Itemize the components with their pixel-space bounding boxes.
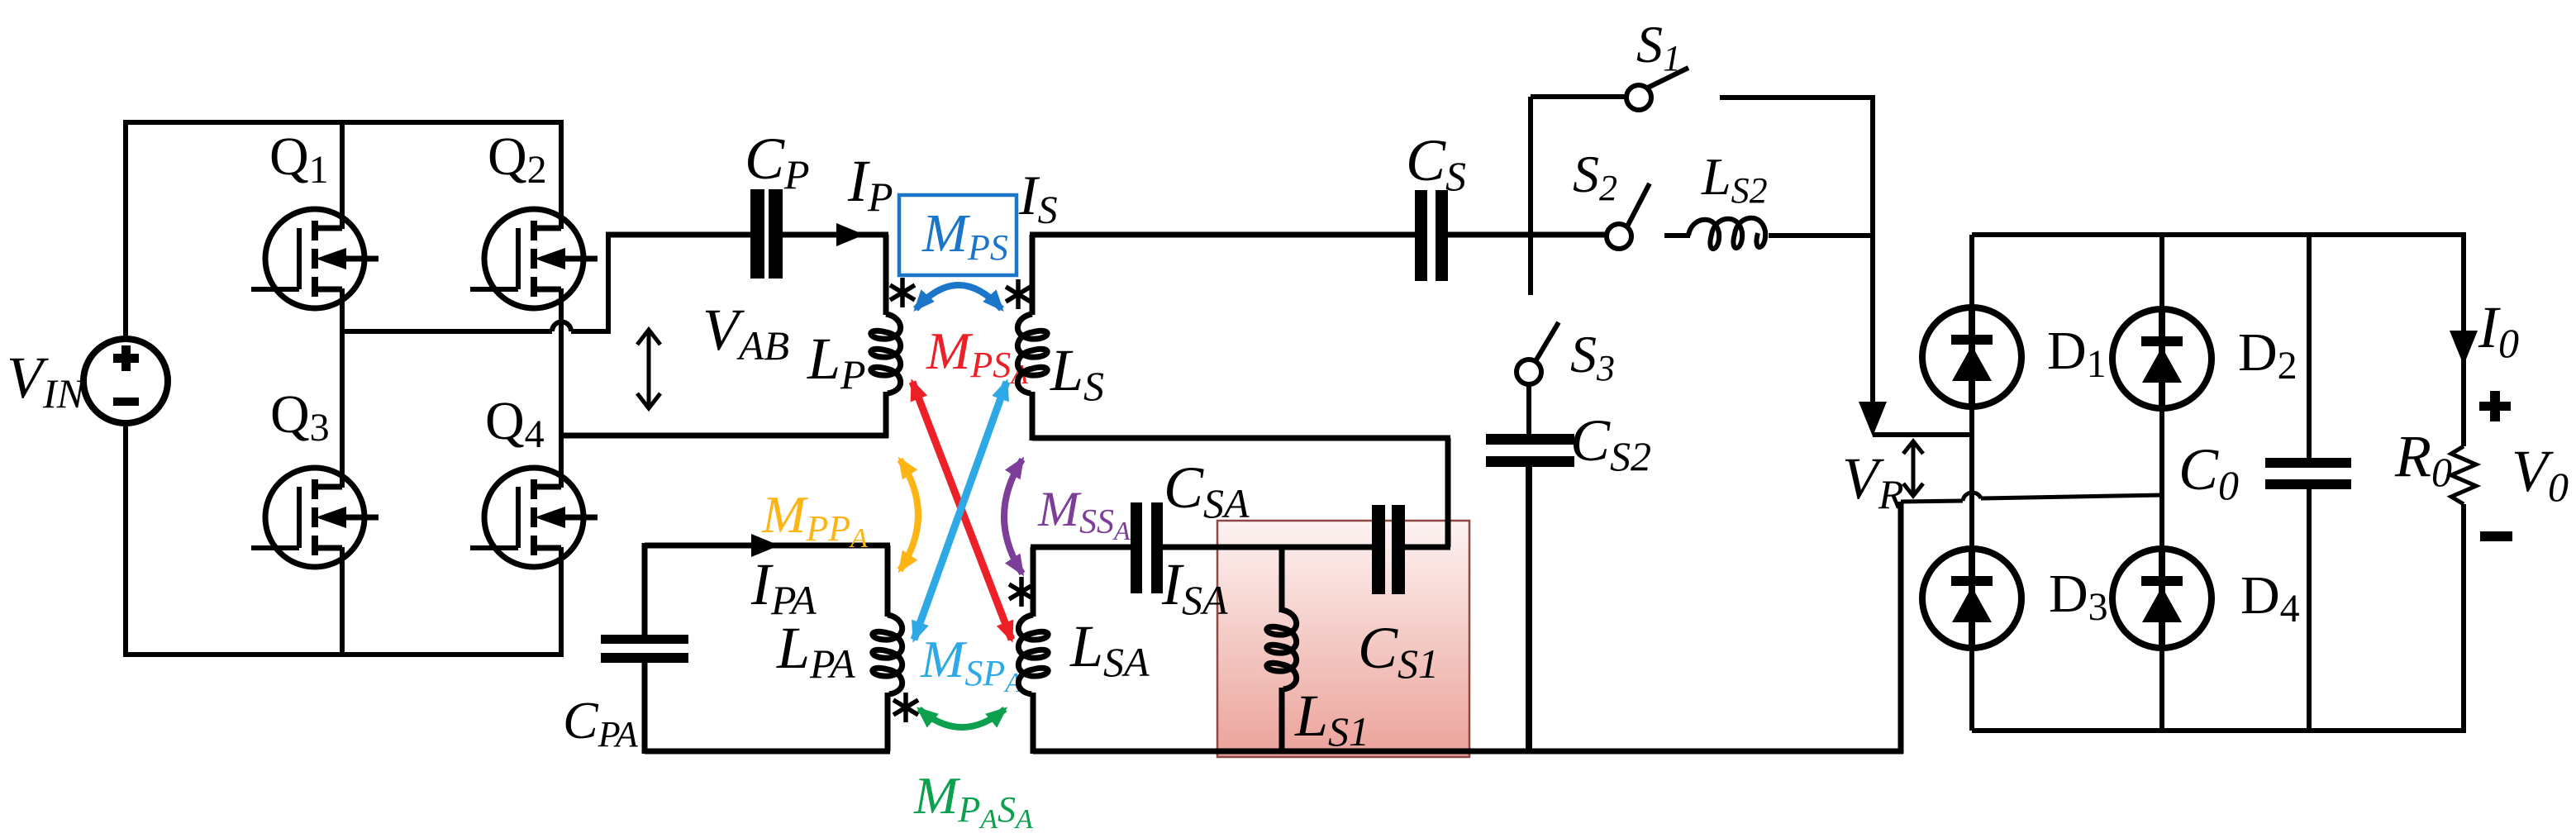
transistor Q3	[251, 468, 379, 567]
wire R0 column bottom	[2461, 504, 2466, 731]
inductor LPA	[873, 615, 902, 694]
wire to capacitor CP	[606, 232, 750, 238]
wire LSA top to CSA	[1031, 545, 1131, 550]
wire C0 column top	[2307, 235, 2312, 458]
capacitor CP	[750, 189, 783, 279]
inductor LS2	[1688, 218, 1765, 249]
inductor LS1	[1267, 610, 1297, 689]
wire LPA bottom	[645, 749, 890, 755]
wire junction vertical S1-S3	[1528, 97, 1533, 295]
svg-text:D3: D3	[2049, 564, 2108, 629]
wire source bottom lead	[123, 423, 128, 657]
svg-text:V0: V0	[2512, 438, 2569, 510]
wire CS1 right	[1405, 545, 1450, 550]
wire LS1 top lead	[1279, 547, 1285, 612]
arrow MSPA cyan diagonal	[914, 382, 1007, 640]
label minus output	[2480, 531, 2512, 541]
wire LSA top lead	[1031, 547, 1036, 617]
svg-text:Q3: Q3	[270, 384, 330, 450]
wire rectifier top rail	[1972, 232, 2466, 237]
arrow VAB double	[637, 330, 660, 408]
svg-text:VIN: VIN	[7, 345, 87, 417]
capacitor C0	[2265, 458, 2351, 489]
svg-text:CS: CS	[1406, 127, 1466, 199]
wire node A to VAB with hop	[342, 322, 608, 332]
svg-text:S1: S1	[1636, 15, 1681, 79]
resistor R0	[2451, 446, 2476, 504]
wire LS2 right	[1769, 233, 1875, 238]
wire LS1 bottom lead	[1279, 688, 1285, 754]
svg-text:LS: LS	[1050, 337, 1104, 409]
capacitor CS1	[1372, 505, 1405, 594]
wire Q4 source lead	[559, 547, 564, 655]
switch S1	[1626, 68, 1688, 110]
node dot asterisk LS	[1006, 279, 1031, 309]
source VIN	[83, 339, 168, 423]
svg-text:S3: S3	[1570, 325, 1615, 388]
svg-text:CP: CP	[745, 126, 810, 198]
node dot asterisk LP	[890, 278, 915, 307]
wire Q1 drain lead	[340, 122, 345, 229]
wire LPA top lead	[885, 545, 891, 617]
inductor LSA	[1018, 615, 1048, 694]
wire LS2 left stub	[1664, 233, 1690, 238]
transistor Q1	[251, 209, 379, 308]
wire S1 right	[1720, 95, 1875, 100]
wire CS1 riser to LS bottom	[1445, 438, 1451, 547]
svg-text:D1: D1	[2047, 321, 2107, 386]
svg-text:IP: IP	[847, 148, 893, 220]
wire left vertical to source	[123, 122, 128, 340]
arrow MPASA green arc	[919, 709, 1005, 727]
wire secondary bottom rail	[1033, 749, 1903, 755]
svg-text:MSSA: MSSA	[1037, 482, 1131, 545]
wire CPA left bottom	[642, 663, 648, 754]
wire VR top link	[1873, 432, 1974, 437]
inductor LP	[871, 314, 901, 393]
wire LPA top	[645, 543, 890, 549]
svg-text:LPA: LPA	[776, 615, 855, 687]
arrow I0 current	[2450, 331, 2478, 365]
wire S3 to CS2	[1526, 384, 1531, 436]
inductor LS	[1017, 314, 1047, 393]
wire bottom rail input	[123, 652, 564, 657]
svg-text:LP: LP	[807, 326, 866, 398]
wire CSA to CS1	[1163, 545, 1372, 550]
arrow MSSA purple arc	[1004, 459, 1022, 574]
wire LS bottom link	[1032, 436, 1450, 441]
svg-text:CSA: CSA	[1164, 455, 1250, 526]
wire CPA left top	[642, 543, 648, 635]
capacitor CPA	[601, 635, 688, 663]
svg-text:MSPA: MSPA	[920, 630, 1022, 698]
arrow IPA current	[751, 534, 779, 557]
wire LSA bottom lead	[1031, 693, 1036, 754]
wire return to D2-D4 midpoint with hop	[1901, 493, 2164, 502]
node dot asterisk LSA	[1009, 577, 1034, 607]
svg-text:LSA: LSA	[1069, 613, 1150, 685]
switch S2	[1607, 183, 1650, 249]
wire return vertical	[1898, 502, 1904, 754]
wire LS bottom lead	[1030, 392, 1036, 440]
wire CS to S2	[1448, 232, 1607, 238]
wire CS2 bottom lead	[1526, 467, 1532, 754]
wire LP top lead	[883, 235, 889, 315]
wire Q3 source lead	[340, 547, 345, 655]
diode D4	[2112, 549, 2212, 648]
box MPS	[899, 195, 1017, 275]
svg-text:IS: IS	[1018, 164, 1058, 232]
svg-text:IPA: IPA	[750, 551, 817, 623]
wire node B to LP bottom	[561, 433, 888, 439]
capacitor CS	[1415, 190, 1448, 281]
wire LS top to CS	[1030, 232, 1415, 238]
svg-text:Q2: Q2	[488, 126, 547, 192]
wire CP to LP	[783, 232, 888, 238]
svg-text:MPASA: MPASA	[913, 766, 1033, 835]
svg-text:Q4: Q4	[485, 391, 545, 456]
svg-text:Q1: Q1	[269, 126, 329, 192]
wire LP bottom lead	[883, 392, 889, 438]
wire Q2 drain lead	[559, 122, 564, 229]
svg-text:VAB: VAB	[702, 297, 789, 369]
svg-text:MPSA: MPSA	[926, 321, 1028, 390]
wire Q2-Q4 column node B	[559, 288, 564, 488]
wire right vertical to rectifier	[1870, 98, 1875, 403]
wire D2 column	[2159, 235, 2164, 731]
arrow MPPA yellow arc	[900, 459, 918, 570]
svg-text:VR: VR	[1842, 445, 1904, 517]
svg-text:MPPA: MPPA	[761, 485, 868, 554]
svg-text:LS2: LS2	[1701, 147, 1768, 211]
arrow down into rectifier	[1859, 402, 1887, 436]
arrow MPSA red diagonal	[912, 382, 1012, 640]
capacitor CS2	[1486, 434, 1574, 467]
node dot asterisk LPA	[893, 693, 918, 722]
svg-text:D4: D4	[2240, 565, 2300, 631]
wire LS top lead	[1030, 235, 1036, 315]
wire VAB riser	[606, 235, 611, 334]
wire D1 column	[1969, 235, 1974, 731]
arrow IP current	[836, 223, 864, 246]
svg-text:D2: D2	[2238, 322, 2297, 388]
wire LPA bottom lead	[885, 693, 891, 751]
wire Q1-Q3 column node A	[340, 288, 345, 488]
wire R0 column top	[2461, 235, 2466, 446]
arrow VR double	[1903, 441, 1923, 496]
wire top rail input	[123, 120, 564, 125]
svg-text:R0: R0	[2394, 423, 2452, 495]
svg-text:CPA: CPA	[563, 691, 639, 755]
label plus output	[2479, 391, 2511, 421]
arrow MPS coupling blue arc	[916, 285, 1002, 309]
switch S3	[1517, 322, 1559, 384]
svg-text:S2: S2	[1573, 145, 1617, 208]
diode D2	[2112, 309, 2212, 408]
svg-text:C0: C0	[2178, 436, 2239, 508]
wire rectifier bottom rail	[1972, 728, 2466, 733]
wire S1 left	[1531, 94, 1626, 99]
box LS1 CS1 pink	[1217, 521, 1469, 757]
diode D3	[1922, 549, 2021, 648]
transistor Q2	[470, 209, 598, 308]
capacitor CSA	[1131, 502, 1163, 593]
transistor Q4	[470, 468, 598, 567]
wire C0 column bottom	[2307, 489, 2312, 731]
svg-text:CS2: CS2	[1570, 407, 1651, 479]
diode D1	[1922, 307, 2021, 407]
svg-text:I0: I0	[2478, 294, 2519, 366]
